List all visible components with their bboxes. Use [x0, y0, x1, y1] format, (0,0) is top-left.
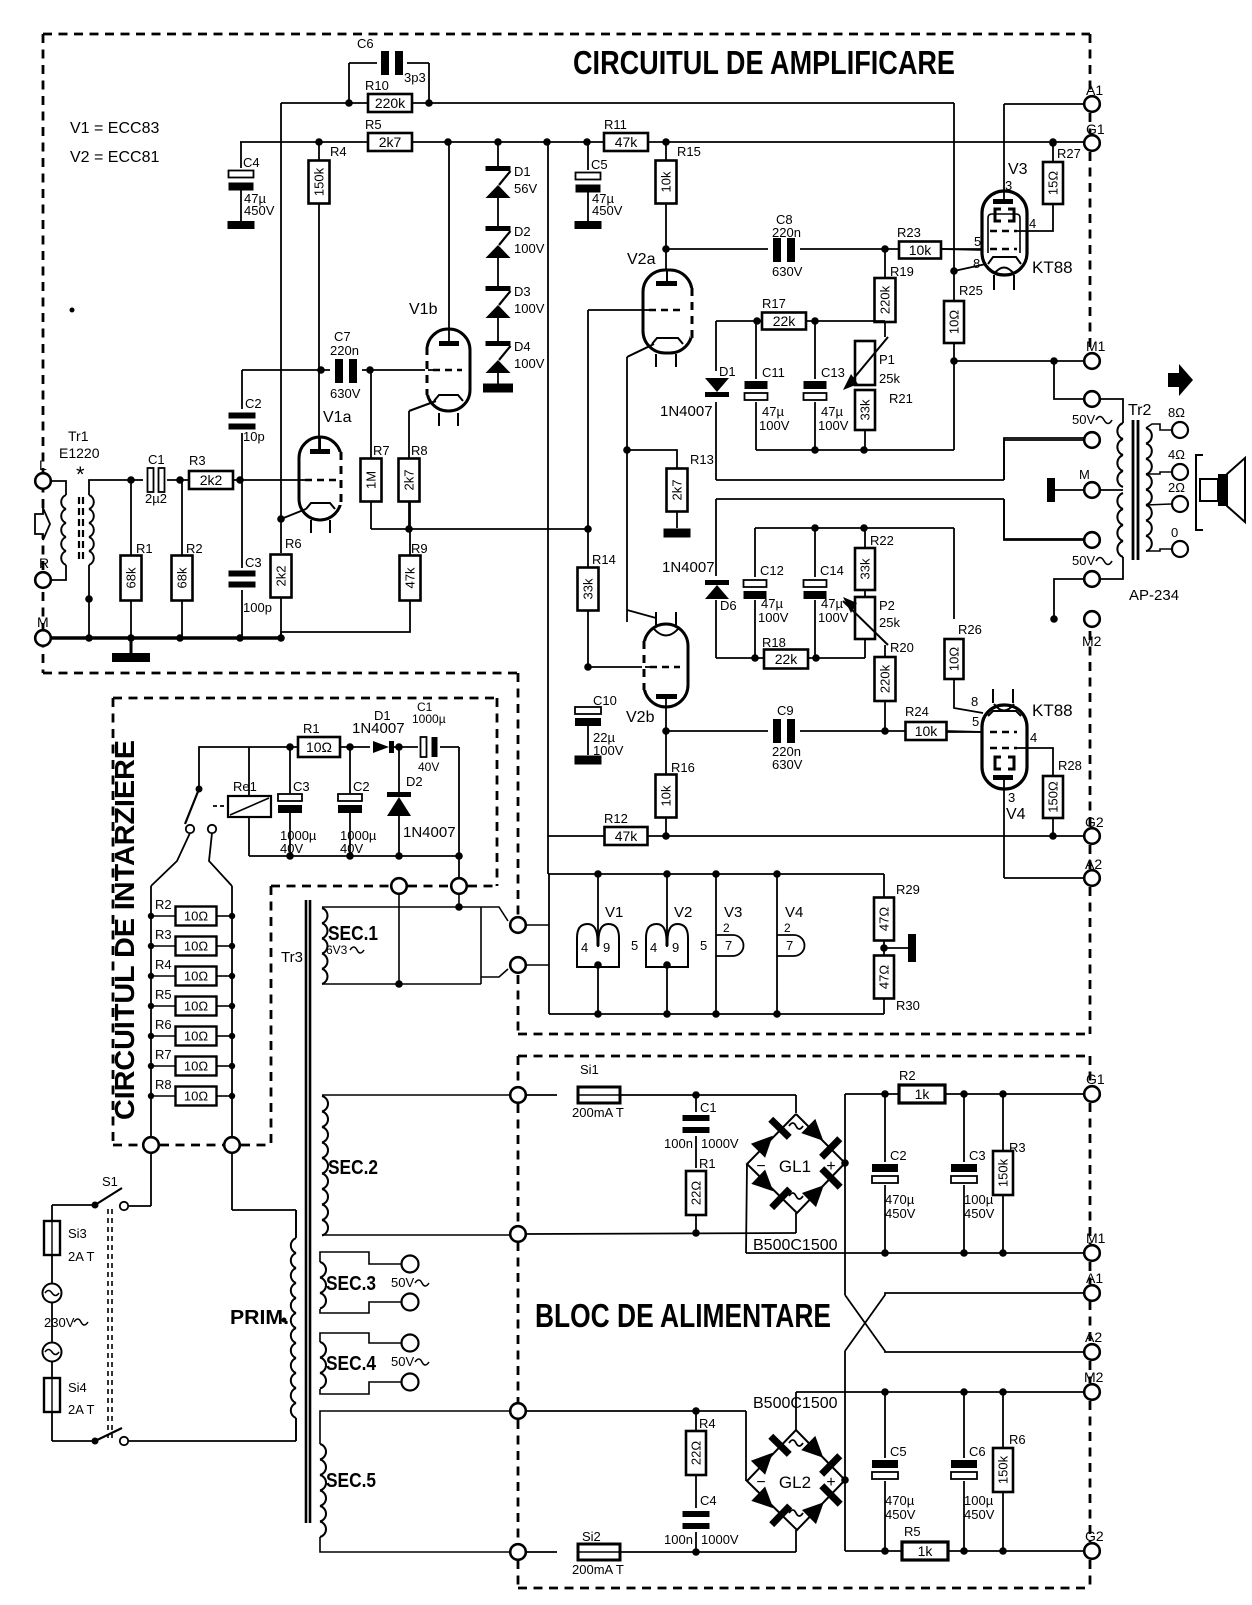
- svg-text:4: 4: [581, 940, 588, 955]
- svg-text:A2: A2: [1085, 856, 1102, 872]
- svg-text:P1: P1: [879, 352, 895, 367]
- svg-text:8: 8: [973, 256, 980, 271]
- svg-text:SEC.3: SEC.3: [326, 1273, 376, 1295]
- svg-text:C11: C11: [762, 365, 785, 380]
- svg-text:220n: 220n: [772, 225, 801, 240]
- svg-text:1N4007: 1N4007: [352, 720, 405, 737]
- svg-text:68k: 68k: [124, 567, 139, 588]
- svg-text:2: 2: [784, 921, 791, 935]
- svg-text:9: 9: [603, 940, 610, 955]
- svg-text:1k: 1k: [915, 1086, 931, 1102]
- svg-text:R8: R8: [411, 443, 428, 458]
- svg-text:47Ω: 47Ω: [877, 907, 892, 931]
- svg-text:R16: R16: [671, 760, 695, 775]
- svg-text:G2: G2: [1085, 1528, 1104, 1544]
- svg-text:R6: R6: [285, 536, 302, 551]
- svg-text:5: 5: [974, 234, 981, 249]
- svg-text:G2: G2: [1085, 814, 1104, 830]
- svg-text:*: *: [76, 462, 85, 487]
- svg-text:68k: 68k: [175, 567, 190, 588]
- svg-text:C1: C1: [148, 452, 165, 467]
- svg-text:R4: R4: [330, 144, 347, 159]
- svg-text:CIRCUITUL DE INTARZIERE: CIRCUITUL DE INTARZIERE: [109, 740, 140, 1120]
- svg-text:C6: C6: [969, 1444, 986, 1459]
- svg-text:2k2: 2k2: [200, 472, 223, 488]
- svg-text:R7: R7: [155, 1047, 172, 1062]
- svg-text:10Ω: 10Ω: [184, 1089, 208, 1104]
- svg-text:4Ω: 4Ω: [1168, 447, 1185, 462]
- svg-text:10k: 10k: [659, 785, 674, 806]
- svg-text:G1: G1: [1086, 121, 1105, 137]
- svg-text:4: 4: [650, 940, 657, 955]
- svg-text:C9: C9: [777, 703, 794, 718]
- svg-text:C13: C13: [821, 365, 845, 380]
- svg-text:50V: 50V: [1072, 412, 1095, 427]
- svg-text:50V: 50V: [391, 1354, 414, 1369]
- svg-text:450V: 450V: [244, 203, 275, 218]
- svg-text:SEC.5: SEC.5: [326, 1470, 376, 1492]
- svg-text:10Ω: 10Ω: [184, 1029, 208, 1044]
- svg-text:D3: D3: [514, 284, 531, 299]
- svg-text:6V3: 6V3: [326, 943, 348, 957]
- svg-text:47µ: 47µ: [821, 404, 843, 419]
- svg-text:5: 5: [700, 938, 707, 953]
- svg-text:100n: 100n: [664, 1532, 693, 1547]
- svg-text:15Ω: 15Ω: [1046, 171, 1061, 195]
- svg-text:470µ: 470µ: [885, 1493, 915, 1508]
- svg-text:33k: 33k: [858, 558, 873, 579]
- svg-text:150Ω: 150Ω: [1046, 781, 1061, 813]
- svg-text:10k: 10k: [915, 723, 939, 739]
- svg-text:1k: 1k: [918, 1543, 934, 1559]
- svg-text:V2b: V2b: [626, 709, 655, 726]
- svg-text:R4: R4: [699, 1416, 716, 1431]
- svg-text:450V: 450V: [964, 1507, 995, 1522]
- svg-text:A1: A1: [1086, 82, 1103, 98]
- svg-text:V3: V3: [724, 904, 742, 921]
- svg-text:22Ω: 22Ω: [689, 1441, 704, 1465]
- svg-text:4: 4: [1030, 730, 1037, 745]
- svg-text:PRIM.: PRIM.: [230, 1307, 289, 1329]
- svg-text:1000V: 1000V: [701, 1532, 739, 1547]
- svg-text:1000V: 1000V: [701, 1136, 739, 1151]
- svg-text:R2: R2: [155, 897, 172, 912]
- svg-text:200mA T: 200mA T: [572, 1105, 624, 1120]
- svg-text:47k: 47k: [403, 567, 418, 588]
- svg-text:10Ω: 10Ω: [184, 939, 208, 954]
- svg-text:9: 9: [672, 940, 679, 955]
- svg-text:47k: 47k: [615, 828, 639, 844]
- svg-text:M: M: [37, 614, 49, 630]
- svg-text:V3: V3: [1008, 161, 1028, 178]
- svg-text:8: 8: [971, 694, 978, 709]
- svg-text:47k: 47k: [615, 134, 639, 150]
- svg-text:40V: 40V: [280, 841, 303, 856]
- svg-text:D4: D4: [514, 339, 531, 354]
- svg-text:C10: C10: [593, 693, 617, 708]
- svg-text:3p3: 3p3: [404, 70, 426, 85]
- svg-text:Re1: Re1: [233, 779, 257, 794]
- svg-text:R5: R5: [365, 117, 382, 132]
- svg-text:1M: 1M: [364, 471, 379, 489]
- svg-text:G1: G1: [1086, 1071, 1105, 1087]
- svg-text:100V: 100V: [514, 356, 545, 371]
- svg-text:50V: 50V: [1072, 553, 1095, 568]
- svg-text:2k7: 2k7: [670, 480, 685, 501]
- svg-text:R21: R21: [889, 391, 913, 406]
- svg-text:10Ω: 10Ω: [184, 1059, 208, 1074]
- svg-text:10Ω: 10Ω: [184, 909, 208, 924]
- svg-text:100V: 100V: [818, 610, 849, 625]
- svg-text:100µ: 100µ: [964, 1493, 994, 1508]
- svg-text:Si3: Si3: [68, 1226, 87, 1241]
- svg-text:100p: 100p: [243, 600, 272, 615]
- svg-text:100V: 100V: [758, 610, 789, 625]
- svg-text:R13: R13: [690, 452, 714, 467]
- svg-text:R11: R11: [604, 117, 627, 132]
- svg-text:22Ω: 22Ω: [689, 1181, 704, 1205]
- svg-text:R24: R24: [905, 704, 929, 719]
- svg-text:10Ω: 10Ω: [184, 999, 208, 1014]
- svg-text:V1a: V1a: [323, 409, 352, 426]
- svg-text:R18: R18: [762, 635, 786, 650]
- svg-text:10Ω: 10Ω: [947, 647, 962, 671]
- svg-text:10p: 10p: [243, 429, 265, 444]
- svg-text:100V: 100V: [514, 301, 545, 316]
- svg-text:C2: C2: [245, 396, 262, 411]
- svg-text:47µ: 47µ: [821, 596, 843, 611]
- svg-text:C3: C3: [293, 779, 310, 794]
- svg-text:AP-234: AP-234: [1129, 587, 1179, 604]
- svg-text:230V: 230V: [44, 1315, 75, 1330]
- svg-text:B500C1500: B500C1500: [753, 1237, 838, 1254]
- svg-text:10k: 10k: [659, 171, 674, 192]
- svg-text:2A T: 2A T: [68, 1249, 95, 1264]
- svg-text:7: 7: [725, 938, 732, 953]
- svg-text:R10: R10: [365, 78, 389, 93]
- svg-text:A2: A2: [1085, 1329, 1102, 1345]
- svg-text:SEC.2: SEC.2: [328, 1157, 378, 1179]
- svg-text:7: 7: [786, 938, 793, 953]
- svg-text:1N4007: 1N4007: [660, 403, 713, 420]
- svg-text:A1: A1: [1086, 1270, 1103, 1286]
- svg-text:33k: 33k: [581, 578, 596, 599]
- svg-text:C5: C5: [890, 1444, 907, 1459]
- svg-text:M2: M2: [1084, 1369, 1104, 1385]
- svg-text:630V: 630V: [330, 386, 361, 401]
- svg-text:220k: 220k: [375, 95, 406, 111]
- svg-text:200mA T: 200mA T: [572, 1562, 624, 1577]
- svg-text:V4: V4: [1006, 806, 1026, 823]
- svg-text:L: L: [39, 457, 47, 473]
- svg-text:V1: V1: [605, 904, 623, 921]
- svg-text:R3: R3: [155, 927, 172, 942]
- svg-text:40V: 40V: [340, 841, 363, 856]
- svg-text:150k: 150k: [996, 1455, 1011, 1484]
- svg-text:R29: R29: [896, 882, 920, 897]
- svg-text:22k: 22k: [775, 651, 799, 667]
- svg-text:R2: R2: [899, 1068, 916, 1083]
- svg-text:100µ: 100µ: [964, 1192, 994, 1207]
- svg-text:25k: 25k: [879, 615, 900, 630]
- svg-text:2Ω: 2Ω: [1168, 480, 1185, 495]
- svg-text:450V: 450V: [964, 1206, 995, 1221]
- svg-text:2k7: 2k7: [379, 134, 402, 150]
- svg-text:R1: R1: [136, 541, 153, 556]
- svg-text:630V: 630V: [772, 264, 803, 279]
- svg-text:R: R: [39, 555, 49, 571]
- svg-text:R22: R22: [870, 533, 894, 548]
- svg-text:C3: C3: [245, 555, 262, 570]
- svg-text:25k: 25k: [879, 371, 900, 386]
- svg-text:CIRCUITUL DE AMPLIFICARE: CIRCUITUL DE AMPLIFICARE: [573, 44, 955, 81]
- svg-text:10Ω: 10Ω: [947, 310, 962, 334]
- svg-text:50V: 50V: [391, 1275, 414, 1290]
- svg-text:22k: 22k: [773, 313, 797, 329]
- svg-text:D2: D2: [406, 774, 423, 789]
- svg-text:1N4007: 1N4007: [403, 824, 456, 841]
- svg-text:100V: 100V: [593, 743, 624, 758]
- svg-text:3: 3: [1008, 790, 1015, 805]
- svg-text:2k7: 2k7: [402, 470, 417, 491]
- svg-text:8Ω: 8Ω: [1168, 405, 1185, 420]
- svg-text:BLOC DE ALIMENTARE: BLOC DE ALIMENTARE: [535, 1297, 831, 1334]
- svg-text:V1b: V1b: [409, 301, 438, 318]
- svg-text:M1: M1: [1086, 1230, 1106, 1246]
- svg-text:470µ: 470µ: [885, 1192, 915, 1207]
- svg-text:10k: 10k: [909, 242, 933, 258]
- svg-text:Si2: Si2: [582, 1529, 601, 1544]
- svg-text:10Ω: 10Ω: [306, 739, 332, 755]
- svg-text:S1: S1: [102, 1174, 118, 1189]
- svg-text:2: 2: [723, 921, 730, 935]
- svg-text:C12: C12: [760, 563, 784, 578]
- svg-text:M1: M1: [1086, 338, 1106, 354]
- svg-text:33k: 33k: [858, 399, 873, 420]
- svg-text:R28: R28: [1058, 758, 1082, 773]
- svg-text:220k: 220k: [878, 664, 893, 693]
- svg-text:R6: R6: [1009, 1432, 1026, 1447]
- svg-text:KT88: KT88: [1032, 701, 1073, 720]
- svg-text:R25: R25: [959, 283, 983, 298]
- svg-text:R3: R3: [189, 453, 206, 468]
- svg-text:R26: R26: [958, 622, 982, 637]
- svg-text:220n: 220n: [330, 343, 359, 358]
- svg-text:SEC.4: SEC.4: [326, 1353, 377, 1375]
- svg-text:R30: R30: [896, 998, 920, 1013]
- svg-text:V4: V4: [785, 904, 803, 921]
- svg-text:D6: D6: [720, 598, 737, 613]
- svg-text:47µ: 47µ: [762, 404, 784, 419]
- svg-text:450V: 450V: [885, 1507, 916, 1522]
- svg-text:220k: 220k: [878, 285, 893, 314]
- svg-text:Si4: Si4: [68, 1380, 87, 1395]
- svg-text:V2a: V2a: [627, 251, 656, 268]
- svg-text:R5: R5: [904, 1524, 921, 1539]
- svg-text:KT88: KT88: [1032, 258, 1073, 277]
- svg-text:P2: P2: [879, 598, 895, 613]
- svg-text:D1: D1: [514, 164, 531, 179]
- svg-text:630V: 630V: [772, 757, 803, 772]
- svg-text:R2: R2: [186, 541, 203, 556]
- svg-text:R17: R17: [762, 296, 786, 311]
- svg-text:450V: 450V: [885, 1206, 916, 1221]
- svg-text:GL2: GL2: [779, 1473, 811, 1492]
- svg-text:100V: 100V: [759, 418, 790, 433]
- svg-text:D1: D1: [719, 364, 736, 379]
- svg-text:10Ω: 10Ω: [184, 969, 208, 984]
- svg-text:C5: C5: [591, 157, 608, 172]
- svg-text:V2: V2: [674, 904, 692, 921]
- svg-text:C4: C4: [700, 1493, 717, 1508]
- svg-text:R27: R27: [1057, 146, 1081, 161]
- svg-text:100n: 100n: [664, 1136, 693, 1151]
- svg-text:0: 0: [1171, 525, 1178, 540]
- svg-text:1N4007: 1N4007: [662, 559, 715, 576]
- svg-text:5: 5: [631, 938, 638, 953]
- svg-text:V2 = ECC81: V2 = ECC81: [70, 149, 159, 166]
- svg-text:3: 3: [1005, 178, 1012, 193]
- svg-text:SEC.1: SEC.1: [328, 923, 378, 945]
- svg-text:2A T: 2A T: [68, 1402, 95, 1417]
- svg-text:C14: C14: [820, 563, 844, 578]
- svg-text:V1 = ECC83: V1 = ECC83: [70, 120, 159, 137]
- svg-text:R5: R5: [155, 987, 172, 1002]
- svg-text:C3: C3: [969, 1148, 986, 1163]
- svg-text:150k: 150k: [312, 167, 327, 196]
- svg-text:R4: R4: [155, 957, 172, 972]
- svg-text:C6: C6: [357, 36, 374, 51]
- svg-text:R12: R12: [604, 811, 628, 826]
- svg-text:4: 4: [1029, 216, 1036, 231]
- svg-text:C7: C7: [334, 329, 351, 344]
- svg-text:R23: R23: [897, 225, 921, 240]
- svg-text:M: M: [1079, 467, 1090, 482]
- svg-text:R7: R7: [373, 443, 390, 458]
- svg-text:R1: R1: [699, 1156, 716, 1171]
- svg-text:100V: 100V: [514, 241, 545, 256]
- svg-text:GL1: GL1: [779, 1157, 811, 1176]
- svg-text:R6: R6: [155, 1017, 172, 1032]
- svg-text:150k: 150k: [996, 1158, 1011, 1187]
- svg-text:Si1: Si1: [580, 1062, 599, 1077]
- svg-text:100V: 100V: [818, 418, 849, 433]
- svg-text:1000µ: 1000µ: [412, 712, 446, 726]
- svg-text:R9: R9: [411, 541, 428, 556]
- svg-text:5: 5: [972, 714, 979, 729]
- svg-text:M2: M2: [1082, 633, 1102, 649]
- svg-text:C2: C2: [353, 779, 370, 794]
- svg-text:R8: R8: [155, 1077, 172, 1092]
- svg-text:E1220: E1220: [59, 445, 100, 461]
- svg-text:R20: R20: [890, 640, 914, 655]
- svg-text:Tr3: Tr3: [281, 949, 303, 966]
- svg-text:2µ2: 2µ2: [145, 491, 167, 506]
- svg-text:R1: R1: [303, 721, 320, 736]
- svg-text:C2: C2: [890, 1148, 907, 1163]
- svg-text:56V: 56V: [514, 181, 537, 196]
- svg-text:47µ: 47µ: [761, 596, 783, 611]
- svg-text:C1: C1: [700, 1100, 717, 1115]
- svg-text:47Ω: 47Ω: [877, 965, 892, 989]
- svg-text:2k2: 2k2: [274, 566, 289, 587]
- svg-text:D2: D2: [514, 224, 531, 239]
- svg-text:Tr1: Tr1: [68, 428, 89, 444]
- svg-text:450V: 450V: [592, 203, 623, 218]
- svg-text:C4: C4: [243, 155, 260, 170]
- svg-text:R15: R15: [677, 144, 701, 159]
- svg-text:R14: R14: [592, 552, 616, 567]
- svg-text:40V: 40V: [418, 760, 439, 774]
- svg-text:Tr2: Tr2: [1128, 402, 1152, 419]
